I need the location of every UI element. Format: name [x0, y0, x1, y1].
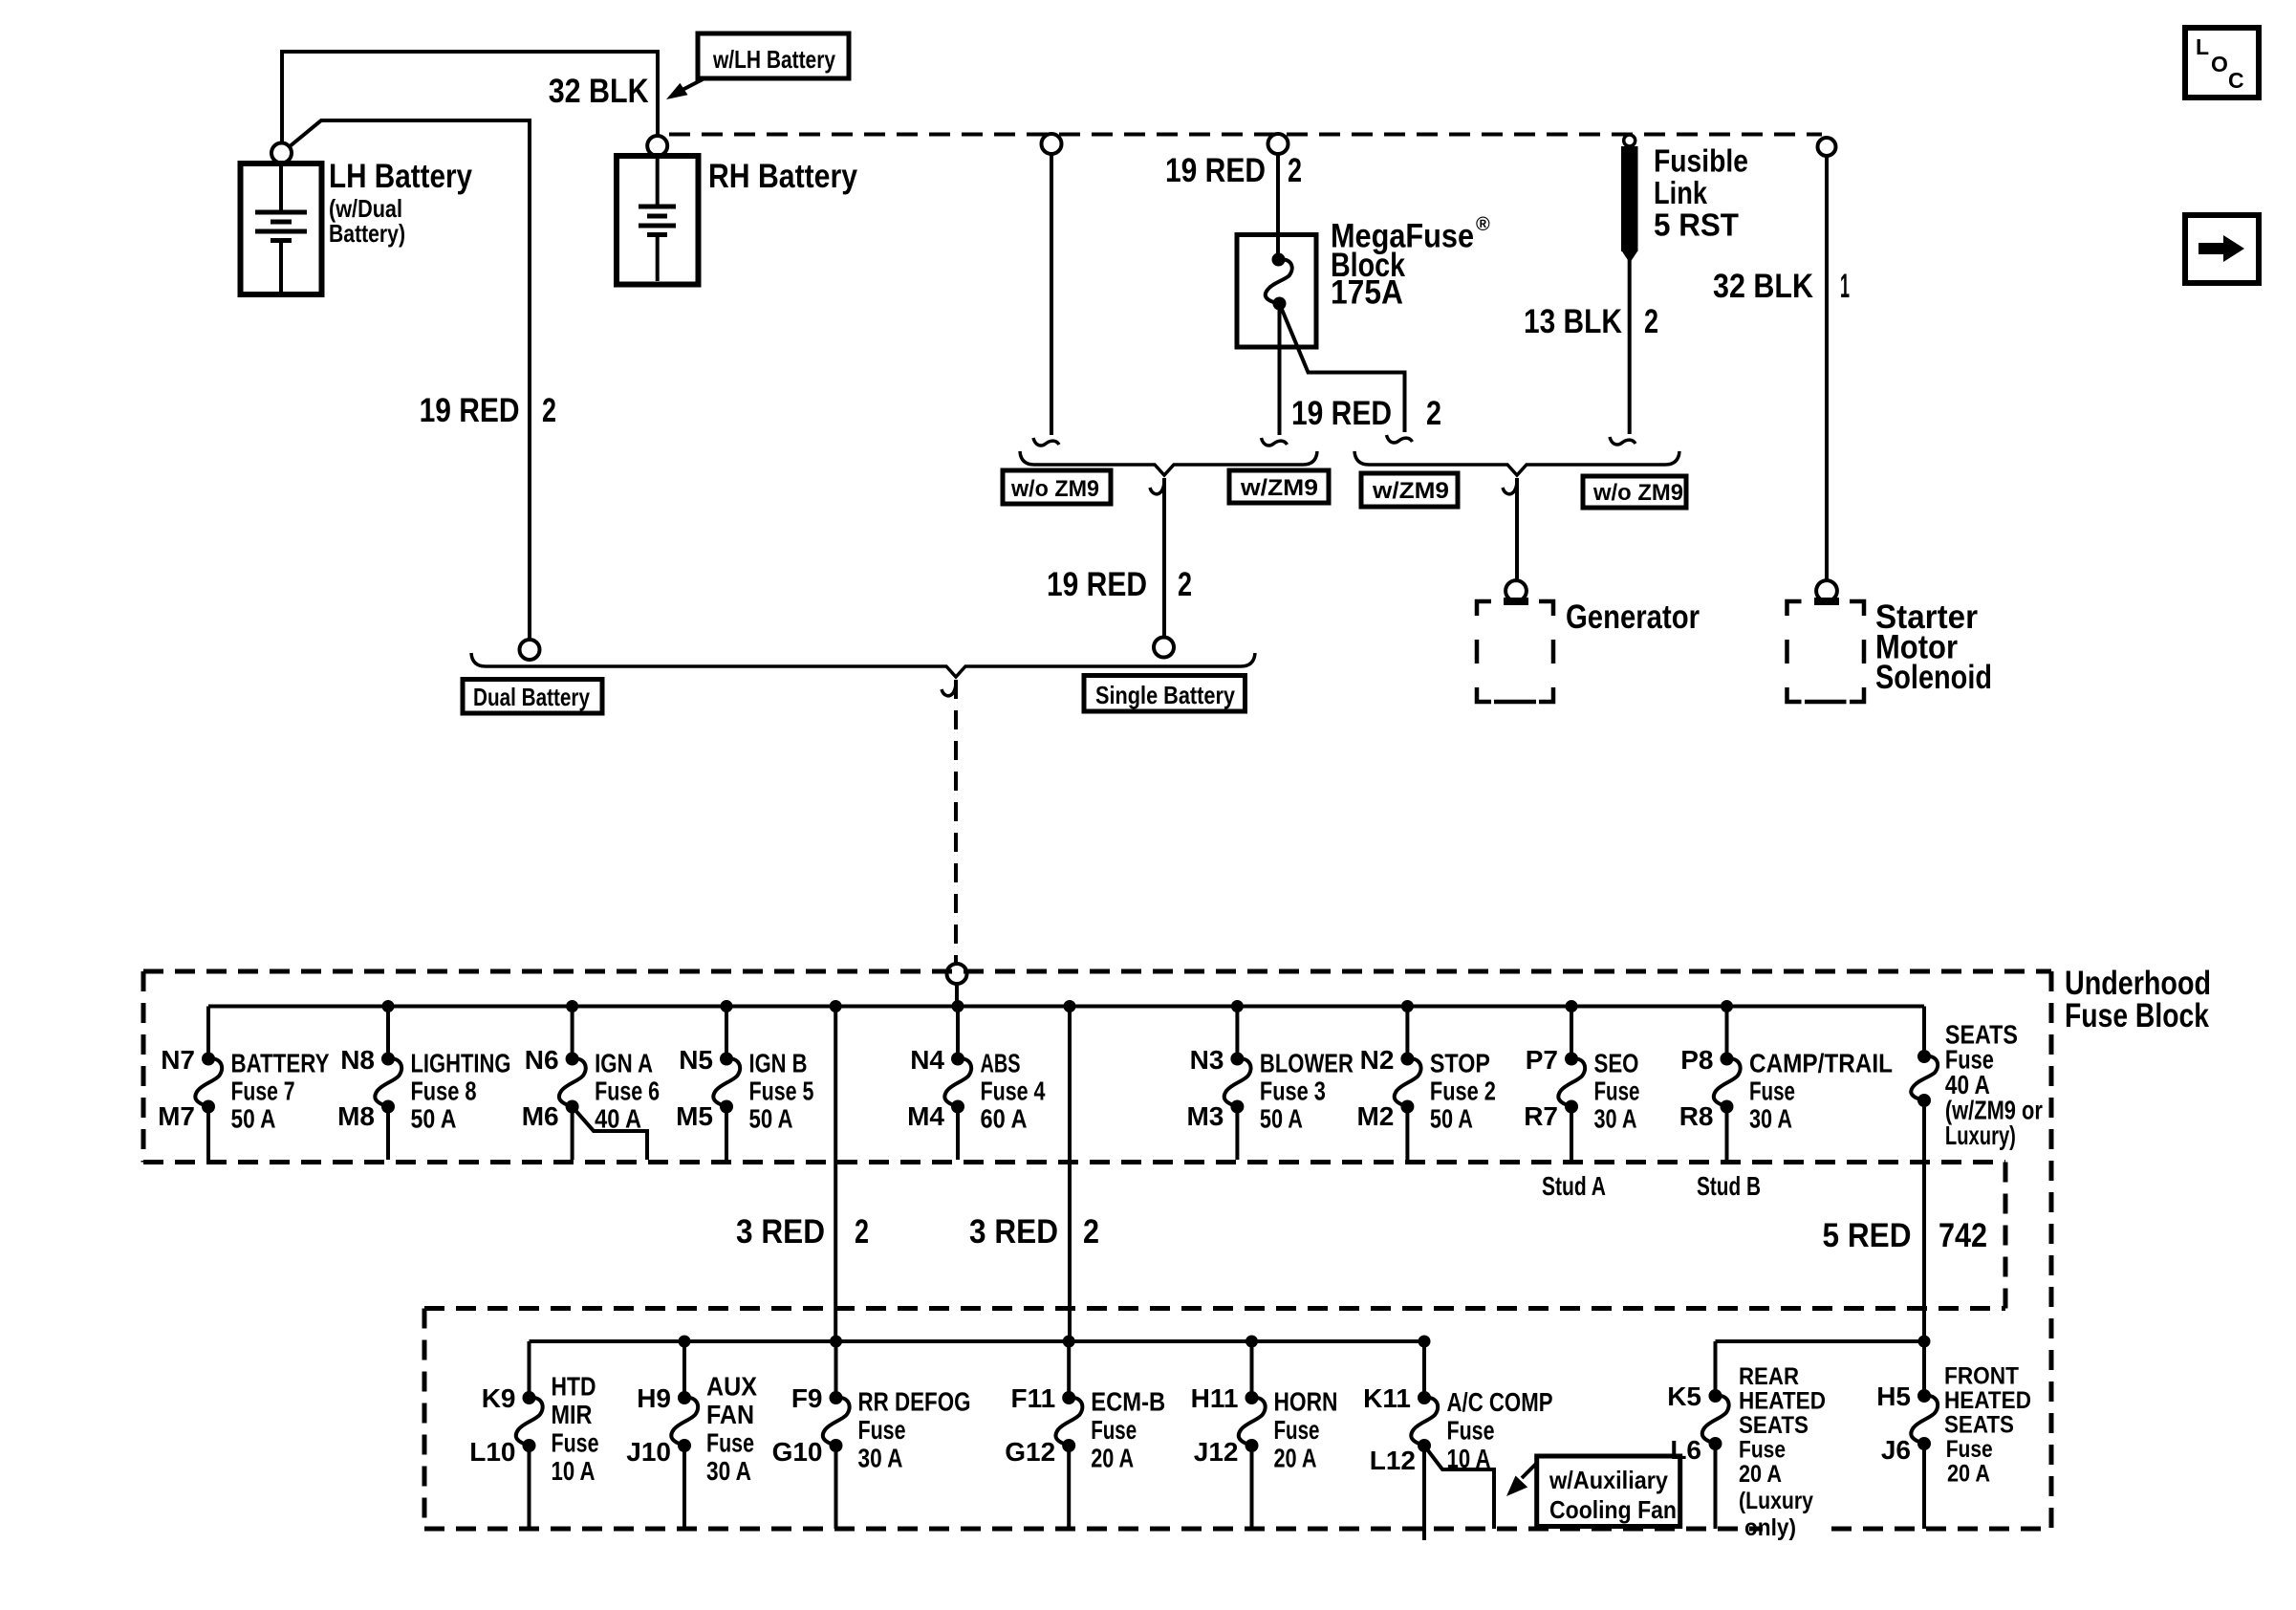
svg-text:2: 2 — [1178, 566, 1192, 603]
svg-text:M5: M5 — [676, 1101, 713, 1131]
svg-text:G12: G12 — [1005, 1437, 1055, 1467]
svg-text:Fuse: Fuse — [552, 1428, 599, 1458]
svg-text:20 A: 20 A — [1274, 1444, 1317, 1473]
svg-text:Fuse: Fuse — [1274, 1415, 1320, 1445]
svg-text:Link: Link — [1654, 175, 1708, 210]
node single battery — [1154, 638, 1174, 658]
svg-text:LH Battery: LH Battery — [329, 158, 472, 195]
starter motor solenoid (dashed box) — [1787, 601, 1865, 702]
svg-text:ABS: ABS — [981, 1049, 1021, 1078]
svg-text:P8: P8 — [1680, 1045, 1713, 1075]
svg-text:K11: K11 — [1363, 1383, 1411, 1413]
svg-text:SEO: SEO — [1594, 1049, 1639, 1078]
svg-text:HTD: HTD — [552, 1372, 596, 1402]
svg-text:J6: J6 — [1881, 1435, 1911, 1465]
svg-text:IGN A: IGN A — [595, 1049, 653, 1078]
svg-text:L10: L10 — [469, 1437, 515, 1467]
svg-text:Fuse 8: Fuse 8 — [411, 1077, 477, 1106]
svg-text:Fuse 4: Fuse 4 — [981, 1077, 1046, 1106]
svg-text:Fuse: Fuse — [1091, 1415, 1137, 1445]
svg-text:HORN: HORN — [1274, 1387, 1338, 1417]
svg-text:STOP: STOP — [1430, 1049, 1490, 1078]
fuse RR DEFOG 30A — [772, 1336, 971, 1530]
svg-text:Cooling Fan: Cooling Fan — [1549, 1495, 1677, 1524]
wire 32 BLK top jumper between batteries — [282, 52, 658, 142]
svg-text:®: ® — [1476, 214, 1490, 235]
svg-text:RH Battery: RH Battery — [708, 158, 857, 195]
svg-text:3 RED: 3 RED — [969, 1213, 1058, 1251]
wire MegaFuse output right 19 RED — [1280, 304, 1405, 433]
svg-text:10 A: 10 A — [552, 1456, 596, 1486]
svg-text:175A: 175A — [1331, 274, 1403, 312]
fuse element MegaFuse — [1272, 253, 1286, 267]
svg-text:Fuse 3: Fuse 3 — [1260, 1077, 1326, 1106]
wire dashed feed to underhood fuse block — [942, 683, 956, 696]
svg-text:Fuse: Fuse — [1447, 1416, 1495, 1446]
wire 3 RED 2 (first) — [830, 1000, 842, 1012]
flag w/ZM9 (1) — [1229, 470, 1329, 503]
wire w/o ZM9 branch down — [1050, 154, 1053, 435]
svg-text:1: 1 — [1840, 268, 1850, 305]
svg-text:(Luxury: (Luxury — [1739, 1488, 1813, 1514]
node tap w/o ZM9 branch — [1042, 134, 1062, 154]
flag w/ZM9 (2) — [1361, 473, 1458, 507]
svg-text:Solenoid: Solenoid — [1875, 659, 1992, 696]
svg-text:FAN: FAN — [706, 1400, 754, 1429]
svg-text:Fuse: Fuse — [858, 1415, 906, 1445]
fuse SEO 30A — [1524, 1000, 1639, 1160]
wire 19 RED single battery feed — [1150, 481, 1164, 494]
svg-text:Fuse: Fuse — [1946, 1436, 1993, 1463]
fuse F2 STOP 50A — [1356, 1000, 1495, 1160]
svg-text:50 A: 50 A — [749, 1104, 793, 1134]
svg-text:L12: L12 — [1370, 1446, 1416, 1475]
fuse AUX FAN 30A — [626, 1336, 757, 1530]
wire 32 BLK 1 to starter solenoid — [1825, 156, 1829, 580]
svg-text:HEATED: HEATED — [1944, 1387, 2031, 1414]
svg-text:2: 2 — [1288, 152, 1302, 189]
svg-text:30 A: 30 A — [1594, 1104, 1637, 1134]
svg-text:Dual Battery: Dual Battery — [473, 683, 590, 711]
svg-text:K9: K9 — [482, 1383, 516, 1413]
svg-text:BATTERY: BATTERY — [231, 1049, 330, 1078]
svg-text:N7: N7 — [161, 1045, 195, 1075]
wire 3 RED 2 (second) — [1064, 1000, 1076, 1012]
svg-text:50 A: 50 A — [231, 1104, 276, 1134]
svg-text:19 RED: 19 RED — [1047, 566, 1147, 603]
wire feed to bus — [955, 984, 959, 1007]
svg-text:M6: M6 — [522, 1101, 559, 1131]
svg-text:19 RED: 19 RED — [1165, 152, 1266, 189]
svg-text:Luxury): Luxury) — [1945, 1120, 2016, 1150]
svg-text:L: L — [2196, 34, 2209, 59]
wire from LH battery to 19 RED feed — [289, 120, 530, 640]
svg-text:IGN B: IGN B — [749, 1049, 808, 1078]
svg-text:20 A: 20 A — [1739, 1461, 1782, 1488]
svg-text:3 RED: 3 RED — [736, 1213, 825, 1251]
svg-text:K5: K5 — [1667, 1382, 1701, 1411]
svg-text:J10: J10 — [626, 1437, 671, 1467]
svg-text:Fusible: Fusible — [1654, 143, 1748, 179]
fuse SEATS 40A — [1911, 1007, 2043, 1342]
svg-text:742: 742 — [1939, 1217, 1987, 1254]
svg-text:Fuse 7: Fuse 7 — [231, 1077, 295, 1106]
fuse CAMP/TRAIL 30A — [1679, 1000, 1893, 1160]
fuse F8 LIGHTING 50A — [337, 1000, 510, 1160]
svg-text:L6: L6 — [1670, 1435, 1701, 1465]
flag Single Battery — [1084, 676, 1245, 712]
svg-text:F11: F11 — [1010, 1383, 1055, 1413]
fuse F4 ABS 60A — [907, 1000, 1046, 1160]
node starter branch — [1818, 138, 1836, 156]
svg-text:Fuse: Fuse — [1749, 1077, 1795, 1106]
svg-text:H9: H9 — [637, 1383, 671, 1413]
svg-text:N6: N6 — [525, 1045, 559, 1075]
icon LOC box — [2185, 28, 2259, 98]
flag w/o ZM9 (1) — [1003, 470, 1111, 504]
svg-text:Stud A: Stud A — [1542, 1171, 1606, 1201]
svg-text:30 A: 30 A — [1749, 1104, 1792, 1134]
svg-text:G10: G10 — [772, 1437, 823, 1467]
svg-text:H11: H11 — [1191, 1383, 1239, 1413]
svg-text:w/o ZM9: w/o ZM9 — [1592, 480, 1683, 506]
battery RH — [617, 156, 699, 285]
node starter solenoid terminal — [1816, 580, 1837, 601]
wire lower bus (heated seats) — [1716, 1339, 1925, 1343]
wire A/C COMP aux fan jog — [1424, 1446, 1494, 1529]
underhood fuse block dashed outline — [143, 971, 2051, 1529]
svg-text:Fuse 6: Fuse 6 — [595, 1077, 660, 1106]
svg-text:20 A: 20 A — [1947, 1461, 1990, 1488]
svg-text:M4: M4 — [907, 1101, 944, 1131]
svg-text:LIGHTING: LIGHTING — [411, 1049, 511, 1078]
fuse block MegaFuse 175A — [1237, 235, 1316, 348]
fuse HORN 20A — [1191, 1336, 1338, 1530]
wire dashed net (w/LH Battery option) — [669, 133, 1822, 137]
svg-text:M3: M3 — [1186, 1101, 1224, 1131]
svg-text:ECM-B: ECM-B — [1091, 1387, 1165, 1417]
svg-text:w/ZM9: w/ZM9 — [1240, 475, 1318, 501]
svg-text:N4: N4 — [910, 1045, 944, 1075]
svg-text:Generator: Generator — [1566, 598, 1700, 636]
svg-text:40 A: 40 A — [595, 1104, 641, 1134]
wire lower bus (left) — [530, 1339, 1425, 1343]
svg-text:FRONT: FRONT — [1944, 1363, 2019, 1390]
svg-text:A/C COMP: A/C COMP — [1447, 1387, 1553, 1417]
node dual battery junction — [520, 640, 540, 660]
flag Dual Battery — [463, 680, 602, 714]
wire MegaFuse output left (w/ZM9) — [1278, 304, 1282, 436]
svg-text:O: O — [2211, 52, 2228, 76]
svg-text:M2: M2 — [1356, 1101, 1394, 1131]
svg-text:50 A: 50 A — [1260, 1104, 1303, 1134]
fuse ECM-B 20A — [1005, 1336, 1165, 1530]
node RH battery terminal — [647, 136, 667, 156]
svg-text:BLOWER: BLOWER — [1260, 1049, 1354, 1078]
fusible link 5 RST — [1621, 135, 1638, 263]
svg-text:M8: M8 — [337, 1101, 375, 1131]
svg-text:19 RED: 19 RED — [1291, 395, 1392, 432]
svg-text:N5: N5 — [679, 1045, 713, 1075]
svg-text:30 A: 30 A — [858, 1444, 903, 1473]
svg-text:J12: J12 — [1194, 1437, 1239, 1467]
arrow to aux fan wire — [1506, 1464, 1536, 1496]
svg-text:60 A: 60 A — [981, 1104, 1028, 1134]
svg-text:F9: F9 — [791, 1383, 823, 1413]
junction seats feed — [1918, 1336, 1931, 1348]
brace ZM9 option group 2 — [1354, 451, 1679, 475]
svg-text:N8: N8 — [340, 1045, 375, 1075]
svg-text:2: 2 — [542, 392, 556, 429]
svg-text:2: 2 — [1426, 395, 1441, 432]
svg-text:SEATS: SEATS — [1944, 1412, 2014, 1439]
svg-text:Fuse: Fuse — [706, 1428, 754, 1458]
svg-text:P7: P7 — [1526, 1045, 1558, 1075]
svg-text:M7: M7 — [158, 1101, 195, 1131]
fuse HTD MIR 10A — [469, 1341, 598, 1529]
fuse F5 IGN B 50A — [676, 1000, 813, 1160]
svg-text:Battery): Battery) — [329, 219, 405, 248]
brace battery option group — [471, 653, 1255, 677]
svg-text:Fuse Block: Fuse Block — [2065, 997, 2209, 1034]
brace ZM9 option group 1 — [1020, 451, 1317, 475]
svg-text:32 BLK: 32 BLK — [1713, 268, 1813, 305]
svg-text:2: 2 — [1644, 303, 1658, 340]
fuse A/C COMP 10A — [1363, 1336, 1552, 1541]
icon arrow box — [2185, 215, 2259, 283]
wire 19 RED into MegaFuse — [1276, 154, 1280, 260]
svg-text:30 A: 30 A — [706, 1456, 751, 1486]
svg-text:Fuse: Fuse — [1594, 1077, 1640, 1106]
svg-text:Single Battery: Single Battery — [1095, 681, 1235, 709]
wire 13 BLK from fusible link — [1628, 258, 1632, 434]
flag w/Auxiliary Cooling Fan — [1537, 1456, 1680, 1527]
svg-text:only): only) — [1744, 1514, 1796, 1541]
svg-text:50 A: 50 A — [1430, 1104, 1473, 1134]
svg-text:2: 2 — [1083, 1213, 1099, 1251]
svg-text:CAMP/TRAIL: CAMP/TRAIL — [1749, 1049, 1893, 1078]
svg-text:5 RST: 5 RST — [1654, 207, 1739, 243]
arrow from w/LH Battery flag — [666, 78, 704, 99]
node feed into fuse block — [947, 964, 967, 984]
svg-text:N3: N3 — [1190, 1045, 1224, 1075]
battery LH — [241, 163, 322, 294]
node generator terminal — [1505, 580, 1527, 601]
generator (dashed box) — [1477, 601, 1553, 702]
wire upper bus — [208, 1005, 1924, 1009]
svg-text:Fuse 2: Fuse 2 — [1430, 1077, 1496, 1106]
svg-text:RR DEFOG: RR DEFOG — [858, 1387, 971, 1417]
svg-text:20 A: 20 A — [1091, 1444, 1134, 1473]
fuse F7 BATTERY 50A — [158, 1007, 330, 1161]
svg-text:w/ZM9: w/ZM9 — [1372, 478, 1449, 504]
svg-text:w/LH Battery: w/LH Battery — [712, 45, 835, 74]
svg-text:R8: R8 — [1679, 1101, 1714, 1131]
svg-text:C: C — [2228, 68, 2244, 93]
wire IGN A alternate output jog — [573, 1107, 647, 1161]
svg-text:MIR: MIR — [552, 1400, 593, 1429]
svg-text:Fuse 5: Fuse 5 — [749, 1077, 814, 1106]
svg-text:N2: N2 — [1360, 1045, 1395, 1075]
svg-text:w/o ZM9: w/o ZM9 — [1010, 476, 1099, 502]
flag w/LH Battery — [698, 33, 849, 78]
svg-text:SEATS: SEATS — [1739, 1412, 1809, 1439]
fuse REAR HEATED SEATS 20A — [1667, 1341, 1826, 1541]
svg-text:5 RED: 5 RED — [1823, 1217, 1912, 1254]
svg-text:19 RED: 19 RED — [420, 392, 520, 429]
svg-text:HEATED: HEATED — [1739, 1388, 1826, 1415]
svg-text:w/Auxiliary: w/Auxiliary — [1549, 1466, 1668, 1494]
svg-text:AUX: AUX — [706, 1372, 757, 1402]
svg-text:R7: R7 — [1524, 1101, 1558, 1131]
node LH battery terminal — [271, 143, 292, 163]
flag w/o ZM9 (2) — [1583, 476, 1686, 508]
node tap MegaFuse branch — [1268, 134, 1289, 154]
svg-text:32 BLK: 32 BLK — [549, 73, 649, 110]
fuse F3 BLOWER 50A — [1186, 1000, 1353, 1160]
svg-text:H5: H5 — [1876, 1382, 1911, 1411]
fuse F6 IGN A 40A — [522, 1000, 660, 1160]
svg-text:Stud B: Stud B — [1697, 1171, 1761, 1201]
svg-text:Fuse: Fuse — [1739, 1437, 1786, 1464]
svg-text:2: 2 — [855, 1213, 869, 1251]
wire to generator — [1503, 481, 1517, 494]
svg-text:REAR: REAR — [1739, 1363, 1799, 1390]
svg-text:50 A: 50 A — [411, 1104, 457, 1134]
svg-text:13 BLK: 13 BLK — [1524, 303, 1622, 340]
fuse FRONT HEATED SEATS 20A — [1876, 1341, 2031, 1529]
